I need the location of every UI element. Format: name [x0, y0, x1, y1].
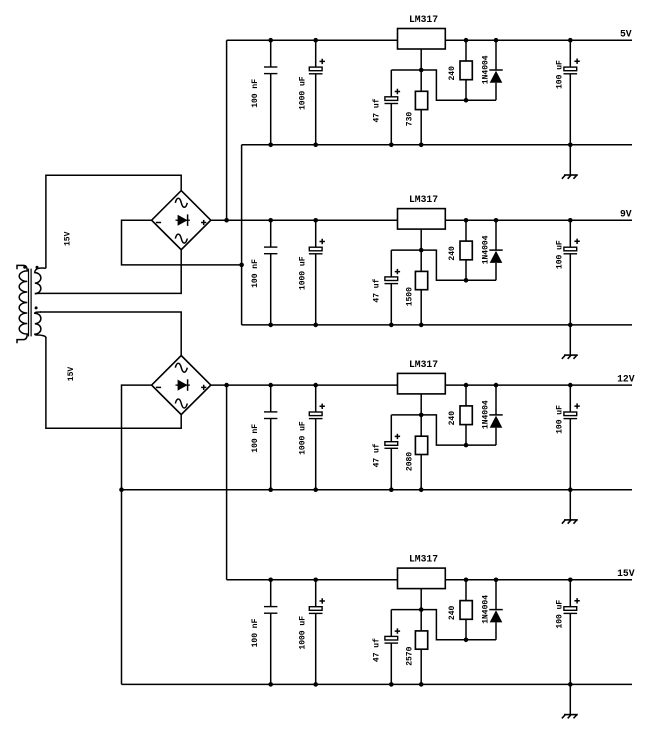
capacitor 100 uF output block 4 [564, 580, 580, 685]
capacitor 100 nF block 2 [264, 220, 277, 325]
svg-text:240: 240 [448, 605, 457, 620]
wire ground rail block 2 [242, 324, 632, 326]
wire ground vertical linking 5V and 9V ground rails [241, 145, 243, 325]
svg-text:47 uf: 47 uf [373, 98, 382, 122]
op-amp: regulator U2 LM317 box [398, 209, 446, 230]
svg-text:1000 uF: 1000 uF [299, 76, 308, 110]
capacitor 1000 uF block 2 [309, 220, 325, 325]
diode 1N4004 block 4 [489, 580, 502, 640]
wire ADJ node to 47uF cap block 3 [391, 414, 421, 416]
junction BR2 + to 15V block [224, 383, 229, 388]
capacitor 100 nF block 4 [264, 580, 277, 685]
svg-text:100 nF: 100 nF [251, 259, 260, 288]
ground symbol block 3 [562, 490, 578, 524]
capacitor 100 uF output block 2 [564, 220, 580, 325]
junction dots ground rail block 2 [268, 323, 572, 328]
capacitor 100 uF output block 1 [564, 40, 580, 145]
bridge BR1 plus sign [201, 220, 206, 225]
svg-text:1000 uF: 1000 uF [299, 256, 308, 290]
svg-text:100 nF: 100 nF [251, 424, 260, 453]
wire BR1 - terminal to ground rails [122, 220, 242, 265]
svg-text:2080: 2080 [406, 452, 415, 471]
wire ground rail block 3 [122, 489, 633, 491]
svg-text:1N4004: 1N4004 [482, 235, 491, 264]
svg-text:LM317: LM317 [409, 14, 438, 25]
junction BR1 + to 5V block [224, 218, 229, 223]
transformer T1 core [29, 269, 32, 337]
transformer polarity dot lower secondary [35, 306, 38, 309]
svg-text:47 uf: 47 uf [373, 443, 382, 467]
svg-text:1N4004: 1N4004 [482, 400, 491, 429]
wire BR2 - terminal down to 12V/15V ground rails [122, 385, 152, 684]
bridge BR1 minus sign [156, 222, 161, 224]
resistor 240 block 2 [460, 220, 472, 280]
capacitor 47 uf block 4 [385, 610, 401, 685]
junction dots top rail block 1 [268, 38, 572, 43]
bridge BR1 internal diode [176, 214, 190, 226]
wire input rail block 4 (15V) [227, 579, 398, 581]
capacitor 47 uf block 1 [385, 70, 401, 145]
transformer polarity dot upper secondary [36, 266, 39, 269]
bridge BR2 plus sign [201, 385, 206, 390]
wire BR1 + output up to 5V block input [226, 40, 228, 220]
capacitor 1000 uF block 3 [309, 385, 325, 490]
svg-text:LM317: LM317 [409, 359, 438, 370]
wire ground rail block 4 [122, 683, 633, 685]
svg-text:15V: 15V [67, 367, 76, 382]
junction dots ground rail block 4 [268, 682, 572, 687]
wire output rail block 3 (12V) [445, 384, 632, 386]
svg-text:240: 240 [448, 246, 457, 261]
resistor 730 block 1 [415, 70, 427, 145]
junction dots top rail block 3 [268, 383, 572, 388]
svg-text:5V: 5V [620, 29, 632, 40]
op-amp: regulator U4 LM317 box [398, 568, 446, 589]
wire upper secondary bottom lead to bridge BR1 AC2 [35, 250, 181, 294]
svg-text:LM317: LM317 [409, 194, 438, 205]
bridge rectifier BR1 body [152, 191, 211, 250]
svg-text:100 uF: 100 uF [556, 405, 565, 434]
wire ADJ node to 47uF cap block 4 [391, 609, 421, 611]
svg-text:1500: 1500 [406, 287, 415, 306]
wire lower secondary bottom lead to bridge BR2 AC2 [46, 337, 181, 428]
svg-text:1N4004: 1N4004 [482, 55, 491, 84]
resistor 2570 block 4 [415, 610, 427, 685]
svg-text:1000 uF: 1000 uF [299, 421, 308, 455]
wire ADJ node jog to feedback line block 3 [421, 415, 496, 445]
svg-text:9V: 9V [620, 209, 632, 220]
svg-text:100 uF: 100 uF [556, 60, 565, 89]
wire output rail block 4 (15V) [445, 579, 632, 581]
bridge rectifier BR2 body [152, 356, 211, 415]
junction dots top rail block 4 [268, 578, 572, 583]
node ADJ junction block 4 [419, 607, 424, 612]
resistor 240 block 1 [460, 40, 472, 100]
ground symbol block 4 [562, 684, 578, 718]
transformer T1 lower secondary winding 15V [35, 312, 46, 338]
capacitor 47 uf block 2 [385, 250, 401, 325]
wire input rail block 2 (9V) [211, 219, 398, 221]
junction dots ground rail block 3 [268, 487, 572, 492]
wire ADJ node jog to feedback line block 1 [421, 70, 496, 100]
node ADJ junction block 2 [419, 248, 424, 253]
svg-text:100 nF: 100 nF [251, 618, 260, 647]
capacitor 100 uF output block 3 [564, 385, 580, 490]
node ADJ junction block 1 [419, 68, 424, 73]
wire input rail block 1 (5V) [227, 39, 398, 41]
bridge BR2 minus sign [156, 386, 161, 388]
wire output rail block 1 (5V) [445, 39, 632, 41]
wire input rail block 3 (12V) [211, 384, 398, 386]
wire ADJ node to 47uF cap block 2 [391, 249, 421, 251]
junction BR2 - at 12V ground rail [119, 487, 124, 492]
svg-text:12V: 12V [617, 374, 635, 385]
wire BR2 + output down to 15V block input [226, 385, 228, 580]
svg-text:730: 730 [406, 112, 415, 127]
diode 1N4004 block 3 [489, 385, 502, 445]
capacitor 1000 uF block 4 [309, 580, 325, 685]
wire upper secondary top lead to bridge BR1 AC1 [46, 175, 181, 268]
wire ADJ node jog to feedback line block 2 [421, 250, 496, 280]
resistor 240 block 3 [460, 385, 472, 445]
junction feedback line at 240 resistor block 1 [464, 98, 469, 103]
ground symbol block 1 [562, 145, 578, 179]
svg-text:1N4004: 1N4004 [482, 595, 491, 624]
wire ADJ node jog to feedback line block 4 [421, 610, 496, 640]
wire lower secondary top lead to bridge BR2 AC1 [40, 312, 181, 355]
ground symbol block 2 [562, 325, 578, 359]
svg-text:100 uF: 100 uF [556, 240, 565, 269]
resistor 240 block 4 [460, 580, 472, 640]
svg-text:2570: 2570 [406, 646, 415, 665]
op-amp: regulator U1 LM317 box [398, 29, 446, 50]
wire output rail block 2 (9V) [445, 219, 632, 221]
op-amp: regulator U3 LM317 box [398, 373, 446, 394]
svg-text:15V: 15V [617, 568, 635, 579]
node ADJ junction block 3 [419, 413, 424, 418]
wire ADJ pin down from U1 [420, 49, 422, 70]
junction dots ground rail block 1 [268, 143, 572, 148]
wire ADJ pin down from U3 [420, 394, 422, 415]
svg-text:47 uf: 47 uf [373, 278, 382, 302]
svg-text:47 uf: 47 uf [373, 638, 382, 662]
svg-text:100 uF: 100 uF [556, 600, 565, 629]
svg-text:1000 uF: 1000 uF [299, 616, 308, 650]
capacitor 100 nF block 3 [264, 385, 277, 490]
wire ground rail block 1 [242, 144, 632, 146]
junction feedback line at 240 resistor block 3 [464, 443, 469, 448]
svg-text:LM317: LM317 [409, 554, 438, 565]
wire ADJ node to 47uF cap block 1 [391, 69, 421, 71]
diode 1N4004 block 2 [489, 220, 502, 280]
capacitor 1000 uF block 1 [309, 40, 325, 145]
diode 1N4004 block 1 [489, 40, 502, 100]
bridge BR2 internal diode [176, 379, 190, 391]
capacitor 100 nF block 1 [264, 40, 277, 145]
wire ADJ pin down from U4 [420, 589, 422, 610]
svg-text:100 nF: 100 nF [251, 79, 260, 108]
bridge BR2 AC squiggle bottom [175, 399, 187, 408]
junction feedback line at 240 resistor block 2 [464, 278, 469, 283]
resistor 1500 block 2 [415, 250, 427, 325]
bridge BR1 AC squiggle bottom [175, 234, 187, 243]
junction feedback line at 240 resistor block 4 [464, 638, 469, 643]
svg-text:240: 240 [448, 411, 457, 426]
svg-text:15V: 15V [64, 231, 73, 246]
junction dots top rail block 2 [268, 218, 572, 223]
wire ADJ pin down from U2 [420, 229, 422, 250]
transformer T1 primary winding [17, 265, 27, 343]
bridge BR2 AC squiggle top [175, 363, 187, 372]
transformer T1 upper secondary winding 15V [35, 268, 46, 294]
junction BR1 - to ground vertical [239, 263, 244, 268]
capacitor 47 uf block 3 [385, 415, 401, 490]
transformer polarity dot primary [23, 266, 26, 269]
resistor 2080 block 3 [415, 415, 427, 490]
bridge BR1 AC squiggle top [175, 198, 187, 207]
svg-text:240: 240 [448, 66, 457, 81]
